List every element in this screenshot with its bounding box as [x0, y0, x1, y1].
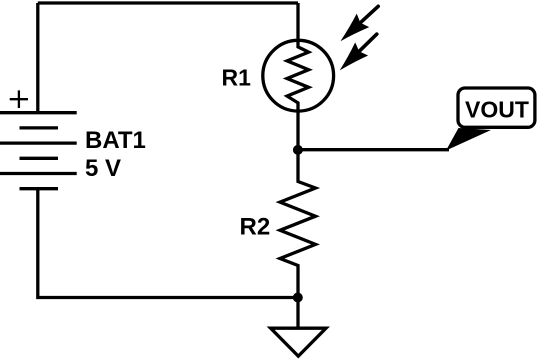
svg-text:BAT1: BAT1	[85, 127, 146, 154]
svg-text:5 V: 5 V	[85, 155, 121, 182]
svg-text:R1: R1	[222, 65, 252, 91]
svg-text:R2: R2	[240, 214, 271, 241]
svg-text:VOUT: VOUT	[465, 97, 529, 123]
